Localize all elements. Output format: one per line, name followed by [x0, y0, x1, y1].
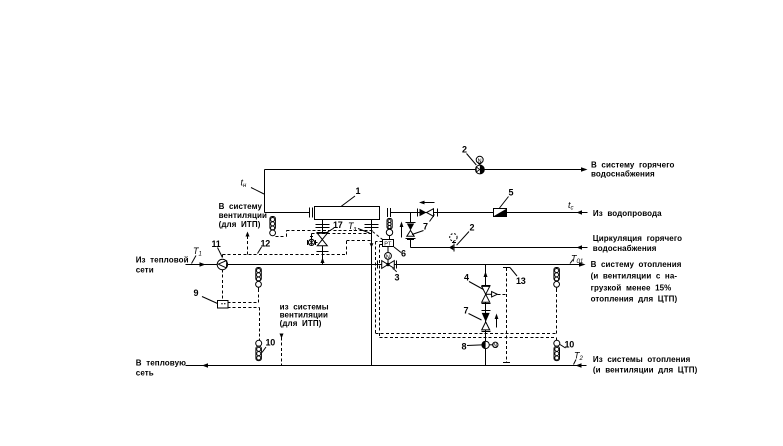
wire: dashed impulse pair horizontal to right sensors [376, 289, 557, 341]
pipe label T3 on HX return [348, 221, 370, 233]
text: from heating system [593, 355, 698, 374]
label 5 with leader [500, 188, 514, 209]
heat exchanger U1 (element 1) [315, 207, 380, 220]
motor N of valve 3 [385, 247, 392, 261]
wire: dashed from element 11 down to box 9 [222, 270, 224, 301]
arrow: to vent system (dashed riser, points up) [246, 232, 250, 237]
svg-text:(для ИТП): (для ИТП) [280, 319, 322, 328]
flow up arrow right of valve 7 [495, 314, 499, 328]
flange pair left of HX [310, 208, 313, 218]
wire: dashed from valve 4 actuator to element 13 [498, 294, 507, 296]
svg-text:1: 1 [356, 186, 361, 196]
svg-text:2: 2 [470, 223, 475, 233]
text: to heat network [136, 358, 186, 377]
label 2 (circulation pump) with leader [457, 223, 475, 246]
svg-text:Из тепловой: Из тепловой [136, 255, 189, 264]
svg-text:Из водопровода: Из водопровода [593, 209, 662, 218]
wire: water line y=212.5 left of HX [265, 212, 310, 214]
svg-text:N: N [493, 343, 497, 349]
flow up arrow under valve 17 [321, 258, 325, 264]
wire: mixing jumper x=485.6 [485, 265, 487, 366]
heat computer box (element 9) [218, 301, 229, 309]
svg-text:10: 10 [266, 338, 276, 348]
label 9 with leader [194, 288, 218, 304]
wire: dashed impulse from gauge to RT [312, 234, 373, 237]
svg-text:В систему горячего: В систему горячего [591, 160, 675, 169]
pipe label T2 [574, 351, 584, 365]
flange pair right of HX [388, 208, 391, 217]
arrow: from vent system (dashed riser, points down) [280, 334, 284, 339]
text: to vent system (left) [219, 202, 267, 229]
svg-text:3: 3 [395, 273, 400, 283]
flow meter (element 11) on T1 [217, 259, 227, 269]
pipe label T01 [570, 254, 583, 266]
wire: dashed vent branch from element 11 to HX return pipe [223, 241, 372, 258]
label 4 with leader [464, 273, 484, 290]
svg-text:4: 4 [464, 273, 469, 283]
text: to heating system block [591, 260, 682, 303]
arrow: from water supply (points left) [577, 210, 583, 214]
svg-text:В систему: В систему [219, 202, 263, 211]
temperature sensor 10 on T2 (right) [554, 340, 560, 360]
label 10 (left) with leader [262, 338, 275, 353]
vertical check valve at x=410.5 (element 7) [406, 223, 416, 240]
valve 17 below HX left outlet [317, 233, 329, 252]
label 1 with leader [341, 186, 361, 207]
pipe label T1 [192, 246, 202, 264]
temperature sensor 10 on T2 (left, heat meter) [256, 340, 262, 360]
flow up arrow left of vertical check valve [400, 222, 404, 238]
svg-text:N: N [386, 254, 390, 260]
svg-text:(и вентиляции с на-: (и вентиляции с на- [591, 272, 678, 281]
temperature sensor 12 below water line [270, 217, 276, 236]
control valve 3 on T1 line [378, 259, 397, 268]
wire: water line right of HX [391, 212, 588, 214]
svg-text:13: 13 [516, 276, 526, 286]
svg-text:12: 12 [261, 239, 271, 249]
svg-text:17: 17 [333, 220, 343, 230]
label 17 with leader [326, 220, 343, 233]
svg-text:вентиляции: вентиляции [219, 211, 267, 220]
label 7 (jumper check valve) with leader [464, 306, 482, 321]
arrow: circulation flow (points left) [577, 245, 583, 249]
text: from heat network [136, 255, 189, 274]
svg-text:(и вентиляции для ЦТП): (и вентиляции для ЦТП) [593, 365, 698, 374]
svg-text:водоснабжения: водоснабжения [593, 244, 657, 253]
wire: dashed impulse pair vertical below RT [376, 242, 383, 338]
svg-text:6: 6 [401, 249, 406, 259]
temperature regulator RT (element 6) [383, 240, 394, 248]
arrow: from heating system into T2 (points left) [576, 363, 582, 367]
wire: dashed vent return riser to T2 [281, 338, 283, 366]
label 2 (top pump) with leader [462, 145, 476, 166]
RT sensor bulb on water line [386, 219, 392, 240]
valve 4 on jumper with actuator [482, 286, 498, 304]
label 8 with leader [462, 342, 482, 352]
svg-text:В систему отопления: В систему отопления [591, 260, 682, 269]
wire: HX return downpipe to T2 [371, 265, 373, 366]
svg-text:сеть: сеть [136, 368, 154, 377]
wire: HX right bottom outlet column x=371 [371, 220, 373, 265]
label 10 (right) with leader [560, 340, 574, 350]
wire: riser from heat exchanger to top line [264, 170, 266, 213]
wire: HX left bottom outlet column x=322 [322, 220, 324, 265]
flange pairs on HX bottom outlets [316, 225, 379, 228]
svg-text:(для ИТП): (для ИТП) [219, 220, 261, 229]
text: to hot water system [591, 160, 675, 178]
water meter (element 5) [494, 209, 507, 217]
wire: check valve column below water line junction [410, 213, 412, 240]
circulation pump assembly (element 2, dashed future pump) [449, 234, 457, 252]
svg-text:8: 8 [462, 342, 467, 352]
pipe label tc [568, 200, 574, 212]
temperature sensor on T01 line (right) [554, 268, 560, 290]
svg-text:7: 7 [464, 306, 469, 316]
wire: T1 supply main line [186, 264, 584, 266]
temperature sensor on T1 (heat meter) [256, 268, 262, 290]
check valve 7 on jumper [482, 311, 491, 332]
element 13: dashed jumper with end ticks [503, 268, 510, 363]
svg-text:10: 10 [565, 340, 575, 350]
svg-text:9: 9 [194, 288, 199, 298]
svg-text:5: 5 [509, 188, 514, 198]
wire: T2 return main line [186, 365, 587, 367]
label 11 with leader [212, 239, 223, 258]
svg-text:7: 7 [423, 222, 428, 232]
flow down arrow on HX return pipe [370, 243, 374, 247]
diagonal dashed into RT top-left corner [373, 232, 383, 240]
pump P2a on hot water line (element 2) [476, 156, 485, 174]
arrow: T2 to heat network (points left) [202, 363, 208, 367]
arrow: T01 to heating system [579, 262, 586, 266]
svg-text:2: 2 [462, 145, 467, 155]
svg-text:В тепловую: В тепловую [136, 358, 186, 367]
label 3 with leader [393, 269, 400, 283]
svg-text:грузкой менее 15%: грузкой менее 15% [591, 284, 672, 293]
flow up arrow at top of mixing jumper [484, 272, 488, 278]
wire: circulation line [411, 247, 588, 249]
arrow: T1 flow right [200, 262, 206, 266]
mixing pump (element 8) [482, 341, 498, 349]
svg-text:11: 11 [212, 239, 221, 249]
svg-text:Циркуляция горячего: Циркуляция горячего [593, 234, 682, 243]
flow direction arrow above check valve (points left) [419, 201, 435, 205]
svg-text:отопления для ЦТП): отопления для ЦТП) [591, 294, 678, 303]
svg-text:водоснабжения: водоснабжения [591, 170, 655, 179]
check valve on water line (element 7 horizontal) [418, 209, 438, 217]
text: hot water circulation [593, 234, 682, 253]
label 6 with leader [394, 247, 406, 259]
wire: circulation riser to check valve [410, 240, 412, 248]
svg-text:сети: сети [136, 266, 154, 275]
wire: dashed impulse from sensor 12 to RT [276, 231, 374, 237]
pipe label tn [241, 178, 265, 195]
wire: dashed pair from box 9 to heat meter sensors [228, 288, 260, 341]
svg-text:PT: PT [384, 241, 392, 247]
arrow: to hot water system (top right) [581, 167, 588, 171]
svg-text:Из системы отопления: Из системы отопления [593, 355, 691, 364]
gauge on valve 17 (circle-X) [308, 237, 318, 246]
label 12 with leader [258, 239, 271, 254]
text: from vent system [280, 302, 329, 328]
label 7 (check valves) with two leaders [412, 215, 435, 235]
wire: hot water supply top line [265, 169, 584, 171]
label 13 with leader [510, 268, 526, 287]
wire: dashed vent supply riser [247, 237, 249, 255]
